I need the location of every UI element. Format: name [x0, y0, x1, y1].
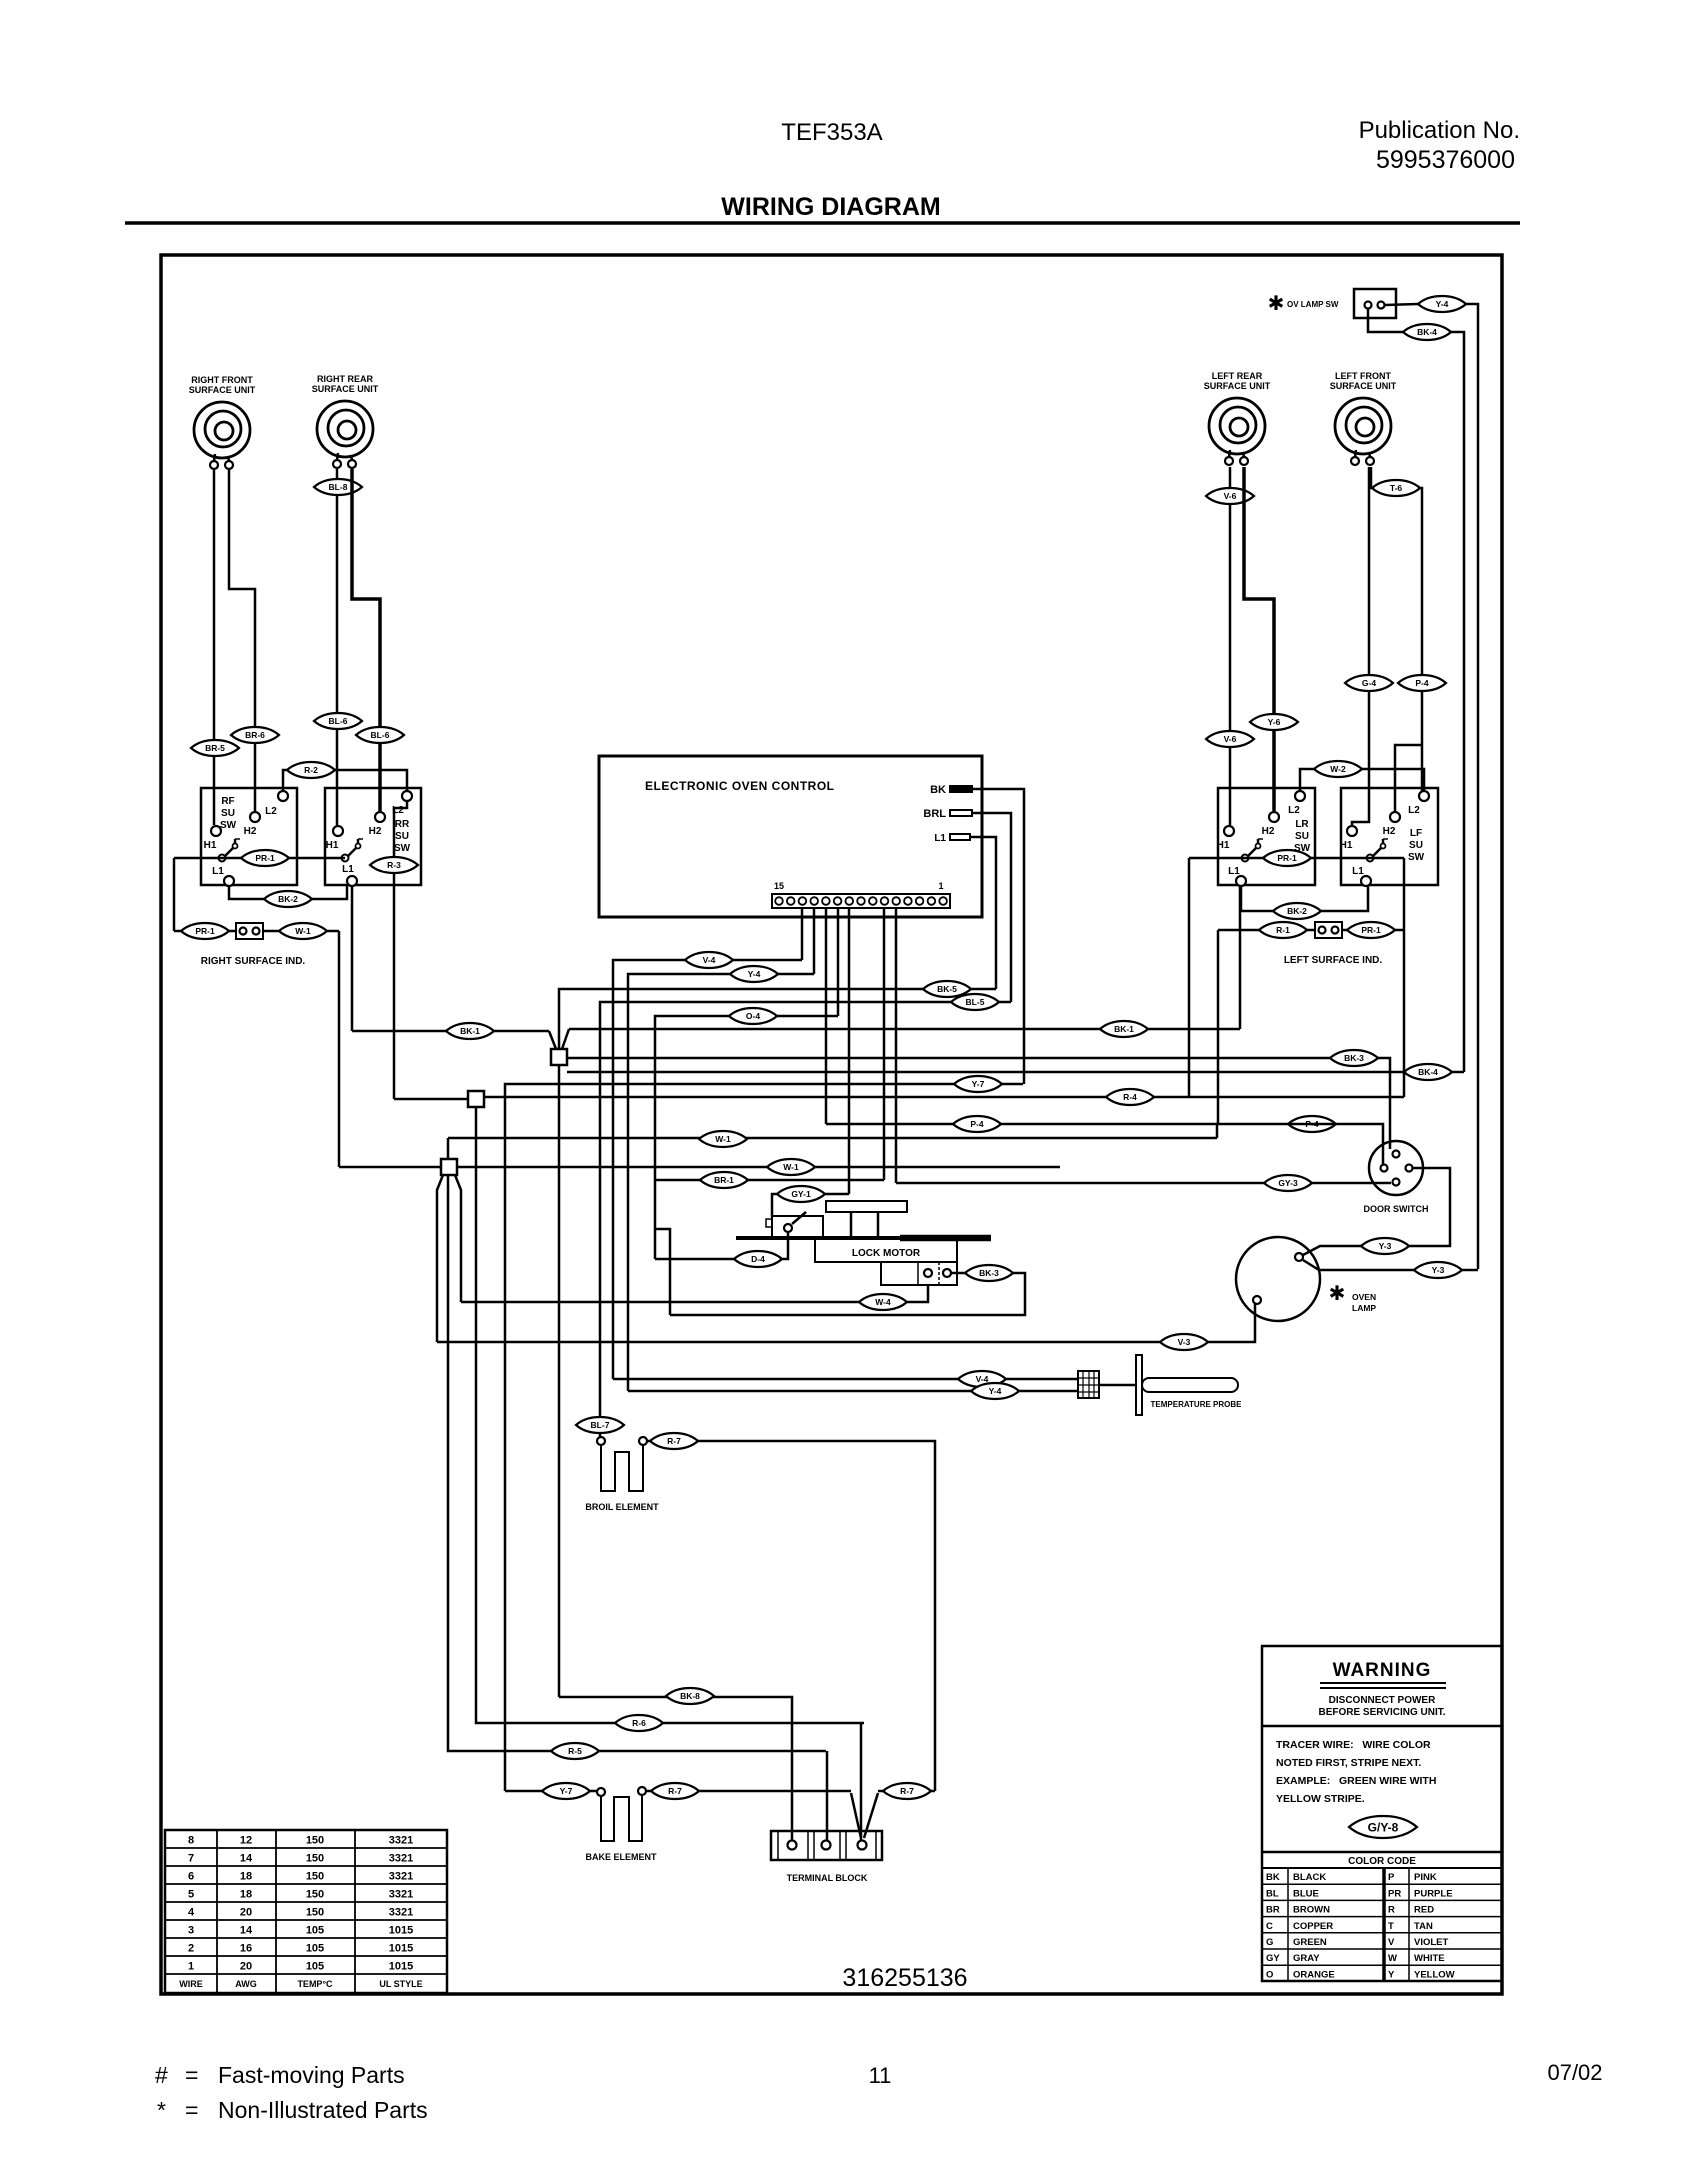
svg-text:Y-4: Y-4 — [748, 969, 761, 979]
svg-text:LEFT SURFACE IND.: LEFT SURFACE IND. — [1284, 955, 1383, 966]
door switch — [1369, 1141, 1423, 1195]
wire ind to PR-1 b — [1342, 929, 1404, 932]
wire J3 left link — [339, 1166, 441, 1169]
svg-text:14: 14 — [240, 1925, 253, 1937]
connector D-4 — [734, 1251, 782, 1267]
svg-text:R-4: R-4 — [1123, 1092, 1137, 1102]
wire strip pin 13 drop — [801, 908, 804, 960]
connector R-7 c — [883, 1783, 931, 1799]
wire strip pin 12 drop — [813, 908, 816, 974]
wire BK-1 left segment — [352, 1030, 549, 1033]
svg-text:105: 105 — [306, 1925, 324, 1937]
connector V-6 a — [1206, 488, 1254, 504]
svg-text:Y-3: Y-3 — [1432, 1265, 1445, 1275]
svg-text:LEFT REAR: LEFT REAR — [1212, 371, 1263, 381]
svg-text:H2: H2 — [244, 826, 257, 837]
svg-text:H1: H1 — [1217, 840, 1230, 851]
svg-text:BK-3: BK-3 — [979, 1268, 999, 1278]
terminal H1 LR — [1224, 826, 1234, 836]
switch LF SU SW box — [1341, 788, 1438, 885]
svg-text:BK-4: BK-4 — [1418, 1067, 1438, 1077]
wire J2 left link — [394, 1098, 468, 1101]
connector BK-8 — [666, 1688, 714, 1704]
svg-text:BL-6: BL-6 — [371, 730, 390, 740]
svg-text:GY: GY — [1266, 1953, 1280, 1964]
wire left surface ind row — [1218, 929, 1315, 932]
svg-text:TERMINAL BLOCK: TERMINAL BLOCK — [787, 1873, 868, 1883]
svg-text:BLACK: BLACK — [1293, 1872, 1326, 1883]
wire strip pin 5 drop — [895, 908, 898, 1183]
connector BL-6 a — [314, 713, 362, 729]
svg-text:L1: L1 — [1352, 866, 1364, 877]
svg-text:18: 18 — [240, 1871, 252, 1883]
wire W-3 line — [457, 1166, 1060, 1169]
connector BR-5 — [191, 740, 239, 756]
wire BK-4 line — [567, 1071, 1464, 1074]
svg-text:TEMP°C: TEMP°C — [297, 1979, 333, 1989]
svg-text:BR-5: BR-5 — [205, 743, 225, 753]
wire BK-2 link — [229, 886, 347, 899]
wire R-7 from broil link — [931, 1790, 935, 1793]
wire strip pin 10 drop — [837, 908, 840, 1016]
svg-text:H1: H1 — [326, 840, 339, 851]
wire L1 RR drop — [351, 886, 354, 1031]
temperature probe link — [1099, 1384, 1136, 1387]
svg-text:=: = — [185, 2062, 198, 2088]
svg-text:BK-1: BK-1 — [1114, 1024, 1134, 1034]
svg-text:BL-6: BL-6 — [329, 716, 348, 726]
connector V-4 b — [958, 1371, 1006, 1387]
terminal block — [771, 1831, 882, 1860]
terminal L2 RR — [402, 791, 412, 801]
svg-text:W-1: W-1 — [715, 1134, 731, 1144]
svg-text:Y-7: Y-7 — [560, 1786, 573, 1796]
wire RF H2 lead — [229, 469, 255, 811]
lock motor bar — [736, 1236, 991, 1240]
connector R-7 b — [651, 1783, 699, 1799]
svg-text:LF: LF — [1410, 828, 1422, 839]
svg-text:07/02: 07/02 — [1547, 2060, 1602, 2085]
connector R-5 — [551, 1743, 599, 1759]
wire lever bus right side RF-RR — [174, 857, 345, 860]
wire BK-3 line — [567, 1058, 1390, 1149]
wire Y-7 to bake — [505, 1790, 597, 1793]
wire strip pin 9 drop — [848, 908, 851, 1194]
lever RR — [342, 839, 364, 862]
wire BL-5 line — [600, 1002, 1011, 1425]
broil element — [601, 1445, 643, 1491]
svg-text:GREEN: GREEN — [1293, 1937, 1327, 1948]
broil element terminals — [597, 1437, 605, 1445]
connector Y-3 b — [1414, 1262, 1462, 1278]
wire door right to lamp — [1303, 1168, 1450, 1255]
svg-text:BL-5: BL-5 — [966, 997, 985, 1007]
svg-text:H2: H2 — [369, 826, 382, 837]
svg-text:150: 150 — [306, 1889, 324, 1901]
svg-text:R-3: R-3 — [387, 860, 401, 870]
svg-text:G: G — [1266, 1937, 1273, 1948]
svg-text:V-6: V-6 — [1224, 491, 1237, 501]
connector PR-1 ind b — [1347, 922, 1395, 938]
svg-text:DOOR SWITCH: DOOR SWITCH — [1364, 1204, 1429, 1214]
svg-text:1015: 1015 — [389, 1925, 413, 1937]
connector BL-5 — [951, 994, 999, 1010]
svg-text:SU: SU — [395, 831, 409, 842]
svg-text:15: 15 — [774, 881, 784, 891]
connector BL-8 — [314, 479, 362, 495]
oven lamp switch SW1 — [1354, 289, 1396, 318]
svg-text:R-7: R-7 — [668, 1786, 682, 1796]
color code table — [1262, 1851, 1502, 1854]
svg-text:150: 150 — [306, 1871, 324, 1883]
connector BK-1 a — [446, 1023, 494, 1039]
wire BK-8 run — [559, 1697, 792, 1841]
svg-text:RIGHT REAR: RIGHT REAR — [317, 374, 374, 384]
svg-text:C: C — [1266, 1921, 1273, 1932]
svg-text:SURFACE UNIT: SURFACE UNIT — [1204, 381, 1271, 391]
svg-text:R-1: R-1 — [1276, 925, 1290, 935]
connector V-4 a — [685, 952, 733, 968]
svg-text:✱: ✱ — [1268, 293, 1285, 315]
connector R-2 — [287, 762, 335, 778]
svg-text:BL: BL — [1266, 1888, 1279, 1899]
wire LR H2 lead — [1244, 467, 1274, 811]
bake element terminals — [597, 1788, 605, 1796]
junction J1 vee — [549, 1031, 556, 1049]
svg-text:RR: RR — [395, 819, 410, 830]
svg-text:COLOR CODE: COLOR CODE — [1348, 1856, 1416, 1867]
svg-text:O-4: O-4 — [746, 1011, 760, 1021]
svg-text:P-4: P-4 — [1415, 678, 1429, 688]
connector V-6 b — [1206, 731, 1254, 747]
wire V-4 upper — [613, 960, 802, 1379]
svg-text:BROWN: BROWN — [1293, 1905, 1330, 1916]
svg-text:VIOLET: VIOLET — [1414, 1937, 1449, 1948]
svg-text:SW: SW — [1408, 852, 1425, 863]
svg-text:YELLOW STRIPE.: YELLOW STRIPE. — [1276, 1793, 1365, 1805]
svg-text:GRAY: GRAY — [1293, 1953, 1320, 1964]
wire Y-4 to right bus — [1466, 304, 1478, 1269]
connector O-4 — [729, 1008, 777, 1024]
svg-text:W: W — [1388, 1953, 1397, 1964]
svg-text:105: 105 — [306, 1943, 324, 1955]
connector R-1 ind — [1259, 922, 1307, 938]
svg-text:12: 12 — [240, 1835, 252, 1847]
svg-text:BK-2: BK-2 — [1287, 906, 1307, 916]
svg-text:1: 1 — [188, 1961, 194, 1973]
svg-text:TAN: TAN — [1414, 1921, 1433, 1932]
connector PR-1 levers b — [1263, 850, 1311, 866]
connector W-1 ind — [279, 923, 327, 939]
svg-text:105: 105 — [306, 1961, 324, 1973]
wire D-4 line — [655, 1232, 788, 1259]
connector GY-1 — [777, 1186, 825, 1202]
svg-text:P: P — [1388, 1872, 1395, 1883]
switch LR SU SW box — [1218, 788, 1315, 885]
wire lever ext drop — [1188, 858, 1191, 1097]
lever LF — [1367, 839, 1389, 862]
connector W-1 b — [699, 1131, 747, 1147]
svg-text:✱: ✱ — [1329, 1283, 1346, 1305]
svg-text:COPPER: COPPER — [1293, 1921, 1333, 1932]
left surface indicator lamp — [1315, 922, 1342, 938]
svg-text:20: 20 — [240, 1907, 252, 1919]
wire R-5 drop — [826, 1751, 829, 1841]
svg-text:Publication No.: Publication No. — [1359, 117, 1520, 144]
svg-text:L2: L2 — [1288, 805, 1300, 816]
svg-text:150: 150 — [306, 1853, 324, 1865]
svg-text:150: 150 — [306, 1907, 324, 1919]
svg-text:20: 20 — [240, 1961, 252, 1973]
wire W-2 arc — [1300, 769, 1424, 792]
wire W-1 line — [448, 1137, 1217, 1140]
switch RF SU SW box — [201, 788, 297, 885]
connector G-4 — [1345, 675, 1393, 691]
svg-text:SU: SU — [221, 808, 235, 819]
svg-text:#: # — [155, 2062, 168, 2088]
terminal H2 LF — [1390, 812, 1400, 822]
svg-text:WARNING: WARNING — [1333, 1660, 1432, 1681]
connector Y-7 a — [954, 1076, 1002, 1092]
wire ind to W-1 — [263, 930, 339, 933]
wire to right ind drop — [173, 858, 176, 931]
svg-text:PINK: PINK — [1414, 1872, 1437, 1883]
svg-text:*: * — [157, 2097, 166, 2123]
svg-text:O: O — [1266, 1969, 1273, 1980]
svg-text:SURFACE UNIT: SURFACE UNIT — [312, 384, 379, 394]
wire BK from eoc — [972, 789, 1024, 1084]
svg-text:BR-6: BR-6 — [245, 730, 265, 740]
svg-text:AWG: AWG — [235, 1979, 257, 1989]
connector W-3 — [767, 1159, 815, 1175]
svg-text:BRL: BRL — [923, 808, 946, 820]
connector BR-1 — [700, 1172, 748, 1188]
svg-text:SW: SW — [220, 820, 237, 831]
left rear surface unit — [1204, 371, 1271, 465]
svg-text:D-4: D-4 — [751, 1254, 765, 1264]
svg-text:G/Y-8: G/Y-8 — [1368, 1820, 1399, 1834]
connector PR-1 levers — [241, 850, 289, 866]
connector Y-7 b — [542, 1783, 590, 1799]
terminal L2 LF — [1419, 791, 1429, 801]
svg-text:TEMPERATURE PROBE: TEMPERATURE PROBE — [1151, 1400, 1243, 1409]
lever LR — [1242, 839, 1264, 862]
svg-text:SU: SU — [1409, 840, 1423, 851]
wire P-4 line — [826, 1123, 1218, 1126]
connector Y-6 — [1250, 714, 1298, 730]
wire R-2 arc — [283, 770, 407, 792]
connector R-4 a — [1106, 1089, 1154, 1105]
wire Y-7 line — [505, 1084, 1023, 1791]
svg-text:H1: H1 — [204, 840, 217, 851]
connector Y-4 a — [730, 966, 778, 982]
wire L1 LR drop — [1239, 886, 1242, 1029]
junction J3 — [441, 1159, 457, 1175]
connector BK-2 b — [1273, 903, 1321, 919]
svg-text:DISCONNECT POWER: DISCONNECT POWER — [1329, 1695, 1436, 1706]
svg-text:BR-1: BR-1 — [714, 1175, 734, 1185]
connector Y-3 a — [1361, 1238, 1409, 1254]
svg-text:WHITE: WHITE — [1414, 1953, 1445, 1964]
svg-text:LEFT FRONT: LEFT FRONT — [1335, 371, 1391, 381]
svg-text:L1: L1 — [1228, 866, 1240, 877]
wire R-6 vertical — [476, 1107, 864, 1723]
svg-text:BL-8: BL-8 — [329, 482, 348, 492]
lock motor plunger cap — [826, 1201, 907, 1212]
svg-text:18: 18 — [240, 1889, 252, 1901]
svg-text:8: 8 — [188, 1835, 194, 1847]
connector BK-3 b — [965, 1265, 1013, 1281]
svg-text:W-1: W-1 — [783, 1162, 799, 1172]
connector R-6 — [615, 1715, 663, 1731]
svg-text:BK: BK — [1266, 1872, 1280, 1883]
connector V-3 — [1160, 1334, 1208, 1350]
svg-text:Y: Y — [1388, 1969, 1395, 1980]
wire Y-3 line — [1462, 1269, 1478, 1272]
terminal H1 LF — [1347, 826, 1357, 836]
wire BK-8 vertical — [558, 1065, 561, 1697]
wire gauge table — [165, 1830, 447, 1993]
svg-text:OVEN: OVEN — [1352, 1292, 1376, 1302]
svg-text:Y-4: Y-4 — [1436, 299, 1449, 309]
svg-text:H1: H1 — [1340, 840, 1353, 851]
wire right surface ind row — [174, 930, 236, 933]
wire L1 from eoc — [970, 837, 996, 989]
connector BK-3 — [1330, 1050, 1378, 1066]
svg-text:Y-4: Y-4 — [989, 1386, 1002, 1396]
terminal L2 RF — [278, 791, 288, 801]
terminal H2 RF — [250, 812, 260, 822]
lock motor switch box — [772, 1216, 823, 1238]
connector BK-4 — [1403, 324, 1451, 340]
svg-text:GY-1: GY-1 — [791, 1189, 811, 1199]
left front surface unit — [1330, 371, 1397, 465]
svg-text:BK-1: BK-1 — [460, 1026, 480, 1036]
svg-text:V: V — [1388, 1937, 1395, 1948]
svg-text:PR: PR — [1388, 1888, 1401, 1899]
connector BK-5 — [923, 981, 971, 997]
wire GY-1 line — [772, 1194, 849, 1217]
svg-text:W-1: W-1 — [295, 926, 311, 936]
svg-text:=: = — [185, 2097, 198, 2123]
wire BK-4 from lamp switch — [1368, 309, 1403, 332]
temperature probe plug — [1078, 1371, 1099, 1398]
svg-text:TRACER WIRE: WIRE COLOR: TRACER WIRE: WIRE COLOR — [1276, 1739, 1431, 1751]
svg-text:R-6: R-6 — [632, 1718, 646, 1728]
svg-text:R-7: R-7 — [900, 1786, 914, 1796]
svg-text:EXAMPLE: GREEN WIRE WITH: EXAMPLE: GREEN WIRE WITH — [1276, 1775, 1436, 1787]
svg-text:V-3: V-3 — [1178, 1337, 1191, 1347]
oven lamp — [1236, 1237, 1320, 1321]
svg-text:PR-1: PR-1 — [1277, 853, 1297, 863]
svg-text:3: 3 — [188, 1925, 194, 1937]
svg-text:W-4: W-4 — [875, 1297, 891, 1307]
wire R-7 bake — [647, 1790, 851, 1793]
wire BL-7 drop — [599, 1425, 602, 1437]
svg-text:SW: SW — [394, 843, 411, 854]
connector W-4 — [859, 1294, 907, 1310]
connector Y-4 — [1418, 296, 1466, 312]
svg-text:V-4: V-4 — [703, 955, 716, 965]
svg-text:11: 11 — [869, 2063, 892, 2088]
connector P-4 b — [1288, 1116, 1336, 1132]
svg-text:4: 4 — [188, 1907, 195, 1919]
svg-text:BK-4: BK-4 — [1417, 327, 1437, 337]
svg-text:L2: L2 — [265, 806, 277, 817]
svg-text:V-6: V-6 — [1224, 734, 1237, 744]
terminal L2 LR — [1295, 791, 1305, 801]
svg-text:BLUE: BLUE — [1293, 1888, 1319, 1899]
connector Y-4 b — [971, 1383, 1019, 1399]
svg-text:1015: 1015 — [389, 1943, 413, 1955]
svg-text:BAKE ELEMENT: BAKE ELEMENT — [585, 1852, 657, 1862]
svg-text:RF: RF — [221, 796, 234, 807]
connector PR-1 ind — [181, 923, 229, 939]
svg-text:BROIL ELEMENT: BROIL ELEMENT — [585, 1502, 659, 1512]
svg-text:3321: 3321 — [389, 1835, 413, 1847]
warning box — [1262, 1646, 1502, 1981]
svg-text:2: 2 — [188, 1943, 194, 1955]
svg-text:SURFACE UNIT: SURFACE UNIT — [189, 385, 256, 395]
wire R-7 broil — [647, 1441, 935, 1791]
terminal H1 RF — [211, 826, 221, 836]
svg-text:ORANGE: ORANGE — [1293, 1969, 1335, 1980]
main border — [161, 255, 1502, 1994]
junction J3 splay right — [455, 1175, 461, 1302]
svg-text:L1: L1 — [934, 833, 946, 844]
svg-text:Y-6: Y-6 — [1268, 717, 1281, 727]
connector G/Y-8 example — [1349, 1816, 1417, 1838]
temperature probe body — [1142, 1378, 1238, 1392]
title rule — [125, 221, 1520, 225]
svg-text:5995376000: 5995376000 — [1376, 146, 1515, 174]
wire R-3 drop — [394, 801, 407, 1099]
wire BK-2 link b — [1241, 886, 1368, 911]
wire GY-3 line — [896, 1182, 1391, 1185]
svg-text:Non-Illustrated Parts: Non-Illustrated Parts — [218, 2097, 428, 2123]
wire V-4 lower — [613, 1378, 1078, 1381]
svg-text:V-4: V-4 — [976, 1374, 989, 1384]
svg-text:YELLOW: YELLOW — [1414, 1969, 1455, 1980]
svg-text:3321: 3321 — [389, 1853, 413, 1865]
wire BK-4 to right bus — [1451, 332, 1464, 1072]
svg-text:SU: SU — [1295, 831, 1309, 842]
wire RF H1 lead — [213, 469, 216, 825]
right front surface unit — [189, 375, 256, 469]
svg-text:WIRING DIAGRAM: WIRING DIAGRAM — [721, 193, 940, 221]
svg-text:W-2: W-2 — [1330, 764, 1346, 774]
wire jog stub — [655, 1229, 670, 1315]
lock motor plunger stem — [850, 1212, 853, 1237]
svg-text:BK-2: BK-2 — [278, 894, 298, 904]
svg-text:NOTED FIRST, STRIPE NEXT.: NOTED FIRST, STRIPE NEXT. — [1276, 1757, 1421, 1769]
electronic oven control box — [599, 756, 982, 917]
wire RR H2 lead — [352, 469, 380, 811]
lever RF — [219, 839, 241, 862]
svg-text:3321: 3321 — [389, 1907, 413, 1919]
svg-text:RED: RED — [1414, 1905, 1434, 1916]
svg-text:UL STYLE: UL STYLE — [379, 1979, 422, 1989]
svg-text:Fast-moving Parts: Fast-moving Parts — [218, 2062, 405, 2088]
wire W-4 line — [461, 1285, 928, 1302]
svg-text:PR-1: PR-1 — [195, 926, 215, 936]
lock motor terminal box — [881, 1262, 957, 1285]
svg-text:GY-3: GY-3 — [1278, 1178, 1298, 1188]
wire RR H1 lead — [336, 469, 339, 825]
svg-text:3321: 3321 — [389, 1871, 413, 1883]
svg-text:R-7: R-7 — [667, 1436, 681, 1446]
svg-text:ELECTRONIC OVEN CONTROL: ELECTRONIC OVEN CONTROL — [645, 779, 835, 793]
